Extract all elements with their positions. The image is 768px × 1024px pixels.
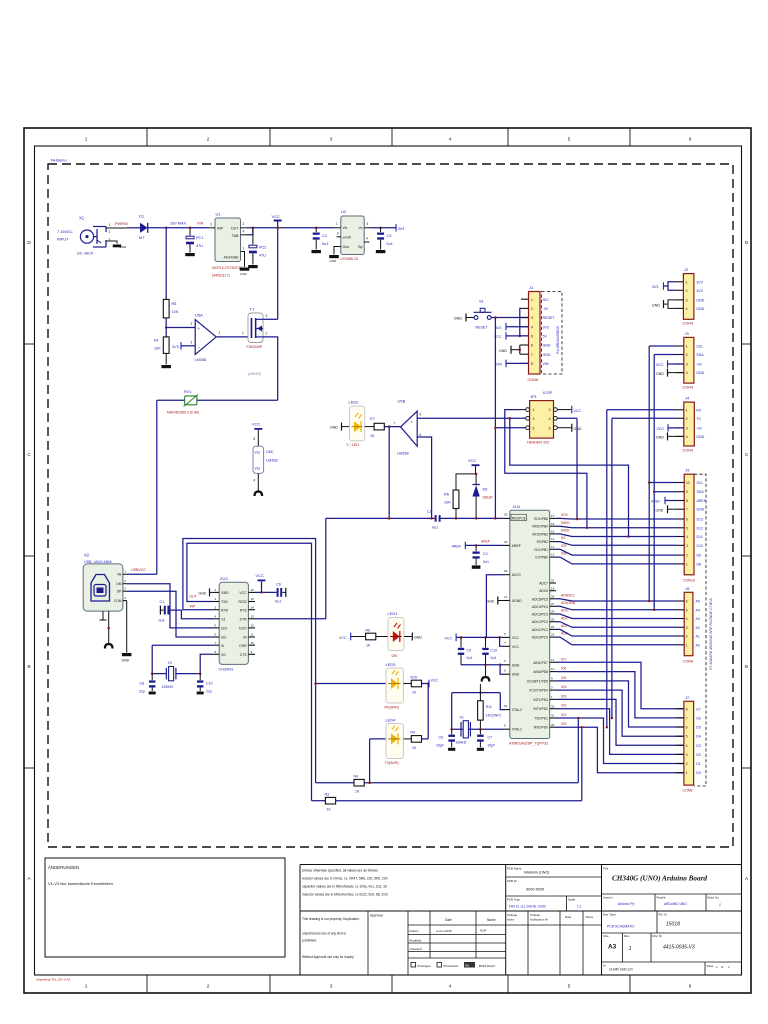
svg-text:6: 6 <box>689 137 692 142</box>
svg-text:BOM Date?: BOM Date? <box>479 964 495 968</box>
svg-text:ICSP: ICSP <box>543 390 553 395</box>
svg-text:R11: R11 <box>486 705 492 709</box>
JP1 pin 1 <box>526 408 530 412</box>
svg-text:resistor values are in Ohms, i: resistor values are in Ohms, i.e. 0R47, … <box>302 877 389 881</box>
transistor T1 FDN340P <box>248 313 263 343</box>
X2 COM ground wire <box>126 601 128 653</box>
resistor R6 <box>453 490 459 509</box>
svg-text:GND: GND <box>120 245 128 249</box>
wire LED2 node down <box>388 427 390 519</box>
svg-text:VCC: VCC <box>656 363 664 367</box>
frame top reference band separators <box>146 128 148 146</box>
svg-text:SCL: SCL <box>696 345 703 349</box>
svg-text:Vcc: Vcc <box>255 451 261 455</box>
net label AREF at J5 <box>664 497 666 505</box>
power symbol VCC main rail <box>274 220 282 222</box>
svg-text:-0V: -0V <box>696 427 702 431</box>
ZU3 pin 10 DSR <box>248 644 255 646</box>
svg-text:3: 3 <box>686 626 688 630</box>
JP1 pin1 MISO wire <box>505 410 587 528</box>
svg-text:1: 1 <box>533 408 535 412</box>
J1 pin 4 <box>521 326 529 328</box>
ground symbol at U2 <box>329 255 339 258</box>
svg-text:ADC5/PC5: ADC5/PC5 <box>532 597 548 601</box>
svg-text:1: 1 <box>686 345 688 349</box>
frame bottom reference band separators <box>146 975 148 993</box>
regulator U2 <box>341 216 364 255</box>
svg-text:GND: GND <box>499 349 507 353</box>
capacitor C6 at V1 <box>451 729 453 734</box>
net label GND at J5 <box>667 505 669 513</box>
wire RV1 to T1 source <box>197 399 278 401</box>
svg-text:on/off-: on/off- <box>343 236 352 240</box>
X2 pin 3 <box>123 590 127 592</box>
ZU3 pin 16 VCC <box>248 591 255 593</box>
svg-text:GND: GND <box>240 272 248 276</box>
svg-text:18: 18 <box>504 569 508 573</box>
svg-text:CON4: CON4 <box>683 386 694 390</box>
X1 pin1 wire <box>106 227 127 229</box>
J3 pin 1 <box>677 345 684 347</box>
svg-text:Drw. Type: Drw. Type <box>603 913 616 917</box>
ZU3 pin 1 GND <box>213 591 220 593</box>
svg-text:LP2985-33: LP2985-33 <box>341 257 359 261</box>
J3 pin 2 <box>677 354 684 356</box>
ZU4 pin 14 SS/PB2 <box>550 541 556 543</box>
ZU4 pin 9 OC0B/T1/PD5 <box>550 680 556 682</box>
svg-text:−: − <box>198 345 201 350</box>
wire IO8 row to J5 <box>556 557 677 564</box>
svg-text:RES/PC6: RES/PC6 <box>512 516 526 520</box>
svg-text:4: 4 <box>254 479 256 483</box>
J7 pin 7 <box>677 717 684 719</box>
ZU4 pin 21 AGND <box>503 600 510 602</box>
capacitor C4 <box>475 545 477 551</box>
svg-text:GND: GND <box>543 353 551 357</box>
connector J2 <box>683 274 694 320</box>
svg-text:XCK/T0/PD4: XCK/T0/PD4 <box>529 689 548 693</box>
svg-text:24: 24 <box>551 625 555 629</box>
J7 pin 6 <box>677 726 684 728</box>
svg-text:LED3: LED3 <box>386 662 397 667</box>
svg-text:10: 10 <box>686 481 690 485</box>
svg-text:of: of <box>721 965 723 969</box>
net label VCC at J4 <box>667 424 669 432</box>
svg-text:C9: C9 <box>467 648 472 652</box>
wire VCC node down to R9 <box>427 684 429 739</box>
svg-text:GND: GND <box>652 303 660 307</box>
svg-text:V3: V3 <box>221 617 225 621</box>
wire ZU3 DTR out <box>255 618 326 620</box>
svg-text:MOSI/PB3: MOSI/PB3 <box>532 532 548 536</box>
svg-text:DC-JACK: DC-JACK <box>77 252 94 256</box>
svg-text:3: 3 <box>330 137 333 142</box>
resistor R10 <box>403 683 411 685</box>
node junction VIN rail <box>165 227 168 230</box>
wire AD2 row to J6 <box>556 622 677 628</box>
svg-text:SCK/PB5: SCK/PB5 <box>534 517 548 521</box>
ZU4 pin 3 GND <box>503 664 510 666</box>
svg-text:GND: GND <box>696 435 704 439</box>
ZU4 pin 2 XCK/T0/PD4 <box>550 689 556 691</box>
svg-text:XTAL1: XTAL1 <box>512 728 522 732</box>
svg-text:C7: C7 <box>488 735 493 739</box>
svg-text:25: 25 <box>551 617 555 621</box>
svg-text:AD5/SCL: AD5/SCL <box>561 593 575 597</box>
dashed schematic boundary box NHduino <box>48 164 733 847</box>
svg-text:10K: 10K <box>444 501 451 505</box>
svg-text:9: 9 <box>686 490 688 494</box>
svg-text:1: 1 <box>109 223 111 227</box>
ZU4 pin 10 XTAL2 <box>503 709 510 711</box>
wire IO0 row to J7 <box>556 727 684 773</box>
wire R4 to MCU serial <box>364 782 578 784</box>
prototype production checkboxes <box>411 963 416 968</box>
svg-text:IO1: IO1 <box>561 713 566 717</box>
svg-text:16MHZ: 16MHZ <box>456 741 467 745</box>
LED1 ground <box>404 636 412 638</box>
JP1 pin 2 <box>554 408 558 412</box>
J2 GND tie wires <box>668 300 676 309</box>
J7 pin 5 <box>677 735 684 737</box>
ground wire at ZU4 <box>461 664 503 666</box>
svg-text:12: 12 <box>551 553 555 557</box>
svg-text:IO6: IO6 <box>561 667 566 671</box>
wire U1 OUT to U2 <box>247 227 334 229</box>
svg-text:3: 3 <box>686 363 688 367</box>
connector J7 <box>684 701 694 785</box>
svg-text:2: 2 <box>549 408 551 412</box>
wire XTAL1 row <box>452 728 503 730</box>
svg-text:LED4: LED4 <box>386 718 397 723</box>
svg-text:NHduino (UNO): NHduino (UNO) <box>524 871 549 875</box>
J4 pin 1 <box>677 409 684 411</box>
standard arduino bus dashed box <box>694 474 706 786</box>
wire AVCC <box>486 575 503 638</box>
svg-text:3V3: 3V3 <box>495 326 501 330</box>
connector J3 <box>684 337 694 383</box>
capacitor C8 <box>151 674 153 681</box>
svg-text:5: 5 <box>533 426 535 430</box>
svg-text:1: 1 <box>85 137 88 142</box>
svg-text:Prj. Nr: Prj. Nr <box>659 913 667 917</box>
ZU3 pin 4 V3 <box>213 618 220 620</box>
svg-text:DTR: DTR <box>240 617 248 621</box>
svg-text:4: 4 <box>686 371 688 375</box>
svg-text:D1: D1 <box>696 762 701 766</box>
svg-text:GND: GND <box>199 592 207 596</box>
IC ZU3 CH340G <box>219 582 248 664</box>
ZU4 pin 26 ADC3/PC3 <box>550 613 556 615</box>
svg-text:47U: 47U <box>259 253 266 257</box>
svg-text:ADC6: ADC6 <box>539 589 548 593</box>
svg-text:GND: GND <box>414 636 422 640</box>
svg-text:15pF: 15pF <box>488 743 496 747</box>
svg-text:C8: C8 <box>140 682 145 686</box>
JP1 pin 5 <box>526 426 530 430</box>
capacitor PC2 <box>252 228 254 245</box>
svg-text:AD3: AD3 <box>561 609 568 613</box>
svg-text:C4: C4 <box>483 552 488 556</box>
svg-text:Rev: Rev <box>624 934 630 938</box>
J5 pin 1 <box>677 563 684 565</box>
svg-text:R4: R4 <box>354 775 359 779</box>
ZU4 pin 25 ADC2/PC2 <box>550 621 556 623</box>
J5 pin 7 <box>677 508 684 510</box>
JP1 pin 4 <box>554 416 558 420</box>
X2 pin 2 <box>123 583 127 585</box>
svg-text:2: 2 <box>531 307 533 311</box>
fuse RV1 <box>157 399 185 401</box>
svg-text:D7: D7 <box>696 707 701 711</box>
svg-text:OUT: OUT <box>190 595 197 599</box>
wire X2 VB to fuse <box>127 573 157 575</box>
svg-text:LM358: LM358 <box>397 452 409 456</box>
resistor R1 <box>163 337 169 354</box>
crystal V1 <box>460 722 462 737</box>
ZU4 pin 30 RXD/PD0 <box>550 726 556 728</box>
svg-text:D1: D1 <box>139 214 145 219</box>
svg-text:DSR: DSR <box>239 644 247 648</box>
svg-text:3V3: 3V3 <box>696 289 702 293</box>
svg-text:-0V: -0V <box>696 363 702 367</box>
svg-text:LED2: LED2 <box>349 400 360 405</box>
revision box AENDERUNGEN <box>45 858 285 957</box>
svg-text:1: 1 <box>686 771 688 775</box>
svg-text:CON8: CON8 <box>683 789 693 793</box>
svg-text:8: 8 <box>254 437 256 441</box>
wire R7 to U5B output <box>384 426 400 428</box>
svg-text:GND: GND <box>574 427 582 431</box>
svg-text:6: 6 <box>686 726 688 730</box>
J6 pin 4 <box>677 618 684 620</box>
pcb name cell <box>506 876 602 878</box>
svg-text:4: 4 <box>686 744 688 748</box>
frame left reference band separators <box>24 343 35 345</box>
J1 pin2 tie wire <box>520 308 521 336</box>
svg-text:23: 23 <box>551 633 555 637</box>
J4 RX wire <box>607 409 677 411</box>
U5B inverting input wire <box>417 437 431 518</box>
svg-text:4: 4 <box>686 617 688 621</box>
JP1 pin2 VCC wire <box>557 409 571 411</box>
diode D5 <box>475 474 477 485</box>
U1 TAB wire <box>247 228 253 235</box>
LED LED3 RX <box>316 683 386 685</box>
svg-text:20: 20 <box>504 540 508 544</box>
svg-text:Name: Name <box>586 915 594 919</box>
svg-text:R232: R232 <box>238 600 246 604</box>
wire IO9 row to J5 <box>556 549 677 555</box>
svg-text:A5: A5 <box>696 600 700 604</box>
svg-text:S1: S1 <box>479 299 485 304</box>
wire IO3 row to J7 <box>556 699 684 745</box>
J6 pin 2 <box>677 635 684 637</box>
svg-text:VCC: VCC <box>272 214 281 219</box>
svg-text:AGND: AGND <box>512 599 522 603</box>
svg-text:3: 3 <box>337 232 339 236</box>
svg-text:8: 8 <box>531 362 533 366</box>
svg-text:4: 4 <box>449 984 452 989</box>
J6 pin 5 <box>677 609 684 611</box>
JP1 pin4 MOSI wire <box>557 417 577 419</box>
J1 dashed bus box <box>542 292 563 375</box>
svg-text:1: 1 <box>686 562 688 566</box>
net label 3V3 at J1 <box>505 323 507 331</box>
wire ZU3 TXD loop to R3 <box>187 543 312 801</box>
svg-text:3: 3 <box>686 427 688 431</box>
svg-text:C6: C6 <box>276 583 281 587</box>
svg-text:PCB Name: PCB Name <box>507 867 522 871</box>
svg-text:22: 22 <box>551 579 555 583</box>
wire R3 to MCU serial <box>336 800 582 802</box>
net label VCC at J3 <box>667 360 669 368</box>
svg-text:10: 10 <box>551 667 555 671</box>
svg-text:PC2: PC2 <box>259 246 266 250</box>
svg-text:R8: R8 <box>366 628 371 632</box>
J4 TX wire <box>612 417 677 419</box>
svg-text:3V3: 3V3 <box>543 325 549 329</box>
svg-text:7: 7 <box>531 353 533 357</box>
wire J4 RX to serial bus <box>606 410 608 727</box>
svg-text:3: 3 <box>686 544 688 548</box>
svg-text:Y2: Y2 <box>168 661 173 665</box>
svg-text:2: 2 <box>686 554 688 558</box>
svg-text:IO7: IO7 <box>561 657 566 661</box>
svg-text:7-16VDC: 7-16VDC <box>57 230 73 234</box>
svg-text:CON4: CON4 <box>683 322 694 326</box>
svg-text:CH340G (UNO) Arduino Board: CH340G (UNO) Arduino Board <box>612 875 707 883</box>
svg-text:GND: GND <box>454 317 462 321</box>
svg-text:3: 3 <box>266 314 268 318</box>
svg-text:Nr: Nr <box>603 964 606 968</box>
svg-text:SUP: SUP <box>480 928 487 932</box>
svg-text:21: 21 <box>504 595 508 599</box>
svg-text:6: 6 <box>689 984 692 989</box>
svg-text:2: 2 <box>109 230 111 234</box>
wire U5A output to T1 gate <box>216 336 248 338</box>
ZU4 pin 29 RES <box>511 514 527 520</box>
ground symbol at X2 COM <box>122 653 132 656</box>
ZU4 pin 1 INT1/PD3 <box>550 698 556 700</box>
svg-text:"L"-LED: "L"-LED <box>346 443 359 447</box>
svg-text:6: 6 <box>686 600 688 604</box>
svg-text:32: 32 <box>551 704 555 708</box>
svg-text:1: 1 <box>531 298 533 302</box>
svg-text:ST ANDARD ARDUINO INTE RCONNE: ST ANDARD ARDUINO INTE RCONNE CT BUS <box>709 597 713 669</box>
connector J5 <box>684 474 694 575</box>
svg-text:INT0/PD2: INT0/PD2 <box>534 707 549 711</box>
svg-text:0u1: 0u1 <box>491 656 497 660</box>
svg-text:CTS: CTS <box>240 653 248 657</box>
wire MISO row to J5 <box>556 526 677 528</box>
capacitor PC1 <box>189 228 191 236</box>
svg-text:VCC: VCC <box>574 409 582 413</box>
svg-text:ICP/PB0: ICP/PB0 <box>535 556 548 560</box>
svg-text:C10: C10 <box>206 682 213 686</box>
svg-text:XO: XO <box>221 653 226 657</box>
svg-text:V1-V3 Nur kosmetische Einzelhe: V1-V3 Nur kosmetische Einzelheiten <box>48 881 113 886</box>
net label 3V3 <box>395 224 397 232</box>
svg-text:Unless otherwise specified, al: Unless otherwise specified, all values a… <box>302 869 378 873</box>
J7 pin 1 <box>677 772 684 774</box>
svg-text:7: 7 <box>394 422 396 426</box>
svg-text:4: 4 <box>531 325 533 329</box>
svg-text:SDA: SDA <box>697 490 705 494</box>
wire R1 to ground <box>165 353 167 364</box>
J1 pin 8 <box>521 362 529 364</box>
svg-text:GND: GND <box>330 426 338 430</box>
capacitor C7 at V1 <box>479 729 481 734</box>
svg-text:1: 1 <box>243 247 245 251</box>
ZU4 pin 17 SCK/PB5 <box>550 517 556 519</box>
svg-text:INT1/PD3: INT1/PD3 <box>534 698 549 702</box>
svg-text:VCC: VCC <box>239 591 247 595</box>
svg-text:TXD/PD1: TXD/PD1 <box>534 717 548 721</box>
J3 pin 3 <box>677 363 684 365</box>
wire ZU3 XO to crystal <box>200 654 212 673</box>
J1 pin 6 <box>521 344 529 346</box>
svg-text:MISO/PB4: MISO/PB4 <box>532 525 548 529</box>
LED LED4 TX <box>370 738 386 740</box>
svg-text:U1: U1 <box>216 212 222 217</box>
svg-text:CON10: CON10 <box>683 579 695 583</box>
svg-text:2: 2 <box>191 340 193 344</box>
JP1 pin 3 <box>526 416 530 420</box>
svg-text:AREF: AREF <box>481 540 490 544</box>
J1 ground pins tie wire <box>519 345 521 354</box>
J3 pin 4 <box>677 372 684 374</box>
svg-text:11: 11 <box>251 633 254 637</box>
svg-text:GND: GND <box>221 591 229 595</box>
svg-text:A1: A1 <box>696 635 700 639</box>
svg-text:7: 7 <box>686 716 688 720</box>
JP1 pin6 GND wire <box>557 427 571 429</box>
wire JP1 MOSI vertical <box>576 418 578 519</box>
connector X1 DC jack <box>80 230 93 243</box>
svg-text:S8187: S8187 <box>483 496 493 500</box>
svg-text:COM: COM <box>114 599 122 603</box>
J2 pin 1 <box>676 281 683 283</box>
svg-text:IO2: IO2 <box>561 704 566 708</box>
wire R9 to VCC node <box>422 738 429 740</box>
svg-text:D2: D2 <box>696 753 701 757</box>
svg-text:ADC0/PC0: ADC0/PC0 <box>532 636 548 640</box>
svg-text:UD+: UD+ <box>221 627 228 631</box>
ground symbol at X1 <box>113 245 122 248</box>
svg-text:ADC1/PC1: ADC1/PC1 <box>532 628 548 632</box>
ZU4 pin 22 ADC7 <box>550 582 556 584</box>
svg-text:0u1: 0u1 <box>483 560 489 564</box>
svg-text:TAB: TAB <box>232 234 239 238</box>
wire VCC node to R6 <box>456 474 476 490</box>
svg-text:27: 27 <box>551 602 555 606</box>
svg-text:1: 1 <box>336 222 338 226</box>
svg-text:D4: D4 <box>696 735 701 739</box>
svg-text:Vin: Vin <box>343 226 348 230</box>
ZU4 pin 12 ICP/PB0 <box>550 556 556 558</box>
svg-text:LM358: LM358 <box>266 459 278 463</box>
svg-text:ADC3/PC3: ADC3/PC3 <box>532 613 548 617</box>
drawn modified checked table <box>407 911 409 975</box>
svg-text:1K: 1K <box>412 691 417 695</box>
svg-text:ADC7: ADC7 <box>539 582 548 586</box>
connector J4 <box>684 402 695 446</box>
resistor R5 <box>163 299 169 318</box>
svg-text:3V3: 3V3 <box>652 285 658 289</box>
svg-text:Name: Name <box>487 918 496 922</box>
svg-text:1: 1 <box>219 331 221 335</box>
